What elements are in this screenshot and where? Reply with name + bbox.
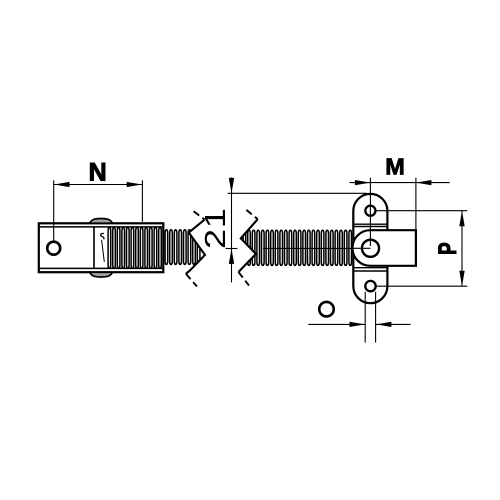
O label	[319, 302, 334, 317]
dimension 21: bottom arrow	[229, 249, 234, 264]
vertical centerline through holes	[369, 178, 371, 246]
dimension O: extension lines	[364, 292, 366, 343]
knuckle block	[352, 230, 415, 266]
right break dash top	[246, 210, 257, 219]
M extension right	[415, 178, 417, 230]
horizontal centerline into knuckle hole	[263, 247, 352, 249]
P arrows	[459, 211, 464, 227]
inner wall line top	[39, 226, 164, 228]
inner wall line bottom	[39, 267, 164, 269]
left rod stub threads (clipped by break)	[165, 230, 200, 265]
svg-text:P: P	[433, 242, 461, 255]
dimension 21: top arrow	[229, 178, 234, 193]
right break zigzag	[239, 219, 258, 272]
svg-text:M: M	[385, 154, 405, 180]
ear gap lines top	[353, 223, 387, 225]
inner vertical edge	[93, 227, 95, 269]
thread runout diagonal	[102, 240, 105, 262]
dimension 21: vertical line	[231, 177, 233, 282]
right break dash bottom	[239, 272, 250, 286]
dimension 21: top reference line	[228, 192, 367, 194]
thread band inside body	[108, 228, 161, 269]
eye hole	[47, 242, 60, 255]
left break dash top	[194, 211, 205, 219]
ear gap lines bottom	[353, 267, 387, 269]
dimension M: line	[350, 182, 450, 184]
swage bump top (gray)	[90, 219, 112, 224]
N arrows (inside, pointing outward)	[54, 182, 70, 187]
dimension P: extension lines	[376, 210, 468, 212]
left break dash bottom	[186, 274, 197, 287]
top ear hole	[365, 206, 375, 216]
svg-text:21: 21	[200, 207, 231, 249]
right rod threads (clipped by break)	[243, 230, 351, 265]
dimension N: extension lines	[53, 180, 55, 241]
P dimension line	[461, 211, 463, 287]
swage bump bottom (gray)	[90, 272, 112, 277]
M arrow left (outside pointing right)	[355, 180, 371, 185]
O dim line left + arrow	[308, 323, 365, 325]
O dim line right + arrow	[376, 323, 411, 325]
N dimension line	[54, 184, 142, 186]
left break zigzag	[186, 220, 205, 274]
right plate (stadium)	[353, 194, 387, 303]
thread runout hook mark	[101, 233, 104, 239]
bottom ear hole	[365, 281, 375, 291]
knuckle hole	[362, 240, 379, 257]
left eye body outer rectangle	[39, 223, 164, 272]
dimension 21: centre tick	[226, 248, 238, 250]
M arrow right (outside pointing left)	[416, 180, 432, 185]
svg-text:N: N	[89, 158, 107, 186]
dimension 21: label	[200, 207, 231, 249]
P label	[433, 242, 461, 255]
